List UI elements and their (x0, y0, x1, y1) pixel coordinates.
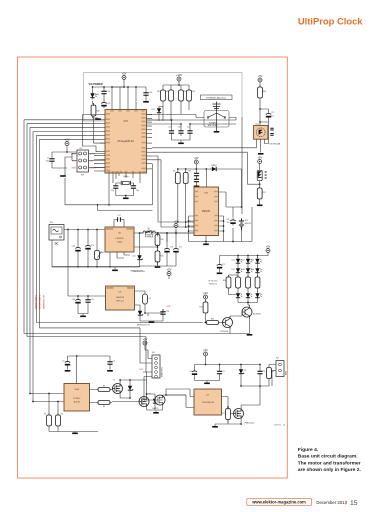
wires U12 NC left (189, 216, 195, 242)
node (165, 394, 167, 396)
+5V supply LED array (266, 244, 271, 252)
wire T4 emitter (249, 319, 251, 334)
node (135, 86, 137, 88)
wire LED bottoms (238, 303, 258, 306)
svg-text:HVT-3.3: HVT-3.3 (116, 301, 124, 303)
resistor R35 (255, 275, 260, 291)
node (188, 220, 190, 222)
caption (298, 447, 362, 473)
LED D11 top (236, 257, 242, 265)
svg-text:VIA POWER: VIA POWER (89, 83, 103, 86)
wire pullup rail (163, 85, 189, 88)
svg-text:C18: C18 (170, 247, 173, 249)
wires left pin stubs (94, 156, 100, 171)
encoder common wire down right edge (241, 117, 243, 214)
wire SCL (152, 160, 194, 227)
wire D9 node (247, 181, 259, 189)
bus wire 3 to U1 (30, 127, 100, 393)
wire +5 rail U7 (195, 361, 261, 369)
node (223, 230, 225, 232)
wire cap C10 tap (147, 120, 172, 128)
wire (139, 232, 144, 234)
resistor R3 (96, 388, 112, 392)
rotary encoder S1 body (204, 111, 229, 128)
wires U12 NC right (219, 216, 224, 242)
bus wire 4 to U1 (33, 132, 100, 402)
capacitor C9 (131, 183, 136, 191)
ground T4 (247, 334, 253, 336)
connector K6 (276, 361, 284, 377)
svg-text:D21: D21 (133, 256, 136, 258)
node (166, 232, 168, 234)
transistor T6 BS170 (155, 395, 165, 405)
regulator U6 LM2576HVT-3.3 (106, 286, 135, 310)
wire K4 to T6 gate (144, 377, 155, 401)
wire U7 inB (166, 395, 194, 408)
capacitor C25 (85, 297, 90, 305)
resistor R1 (47, 413, 52, 429)
wires R36 (229, 275, 239, 295)
node (77, 229, 79, 231)
wire T3 emitter join (230, 329, 250, 334)
svg-text:ACOA: ACOA (74, 401, 81, 404)
svg-text:130552 - 14: 130552 - 14 (274, 425, 286, 427)
wire D21 leads (139, 233, 141, 266)
svg-text:U1A: U1A (75, 388, 80, 391)
svg-text:TC4427: TC4427 (73, 398, 81, 400)
ground U5 out (155, 266, 161, 268)
LED D13 top (255, 257, 261, 265)
svg-text:R2: R2 (61, 414, 63, 416)
svg-text:+3V3: +3V3 (166, 306, 170, 308)
node (29, 393, 31, 395)
IC3 pin name marks left (106, 113, 110, 115)
svg-text:BT1: BT1 (245, 220, 248, 222)
regulator U5 LM2576T-ADJ (105, 227, 134, 252)
svg-text:C24: C24 (72, 299, 75, 301)
node (259, 183, 261, 185)
wires U1 outs (90, 390, 97, 403)
wires +5 caps gnd (140, 233, 177, 266)
wire SDA (152, 156, 194, 222)
diode D1 (128, 384, 133, 392)
svg-text:22p: 22p (111, 190, 114, 192)
wire U7 caps gnd (195, 377, 220, 383)
svg-text:C2: C2 (62, 361, 64, 363)
wire K1 power (52, 146, 77, 169)
node (144, 312, 146, 314)
node (188, 225, 190, 227)
resistor R28 (175, 171, 180, 187)
connector K5 DC input (49, 225, 64, 241)
node (178, 84, 180, 86)
wire aref gnd loop (65, 164, 153, 205)
figure frame (18, 57, 288, 478)
wire R5 top to K6 (269, 365, 276, 366)
wire cap C11 tap (147, 124, 182, 128)
svg-text:100n: 100n (46, 161, 50, 163)
ground U1 (72, 433, 78, 435)
node (223, 225, 225, 227)
ground main rail (112, 270, 118, 272)
svg-text:D11: D11 (232, 260, 235, 262)
svg-text:RESET: RESET (90, 168, 97, 170)
svg-text:C6: C6 (263, 371, 265, 373)
wires mosfets (112, 380, 147, 410)
svg-text:C19: C19 (179, 247, 182, 249)
switch S2 (145, 230, 152, 233)
svg-text:L3: L3 (149, 298, 151, 300)
node (247, 302, 249, 304)
+5V supply K1 (65, 137, 70, 145)
mosfet T1 (113, 384, 123, 394)
svg-text:C25: C25 (91, 299, 94, 301)
node (237, 255, 239, 257)
node (259, 121, 261, 123)
wire (114, 267, 116, 269)
svg-text:T-ADJ: T-ADJ (117, 241, 123, 244)
resistor R35 (203, 300, 208, 316)
IC3 left pin wires (100, 114, 105, 116)
svg-text:10k: 10k (188, 171, 191, 173)
bus wire 6 to K4 (40, 139, 153, 363)
svg-text:R19: R19 (157, 91, 160, 93)
svg-text:R30: R30 (160, 239, 163, 241)
svg-text:4u7: 4u7 (271, 116, 274, 118)
svg-text:ENCODER: ENCODER (208, 125, 218, 127)
capacitor C21 (266, 111, 271, 119)
node (188, 230, 190, 232)
wire U7 inA (166, 389, 194, 397)
node (259, 108, 261, 110)
LED D18 low (246, 292, 252, 300)
node (241, 206, 243, 208)
capacitor C12 (187, 128, 192, 136)
svg-text:C10: C10 (168, 126, 171, 128)
inductor L1 (143, 231, 155, 233)
node (92, 86, 94, 88)
svg-text:R32: R32 (211, 318, 214, 320)
node (240, 423, 242, 425)
display-board boundary box (84, 73, 243, 122)
svg-text:DS3231: DS3231 (202, 211, 211, 213)
svg-text:C17: C17 (222, 264, 225, 266)
node (66, 151, 68, 153)
svg-text:R36: R36 (223, 280, 226, 282)
LED D14 mid (236, 267, 242, 275)
resistor R19 (161, 88, 166, 104)
wire +5V rail to RTC (155, 232, 194, 234)
node (146, 393, 148, 395)
IC3 pin name marks right (142, 113, 146, 115)
node (96, 266, 98, 268)
svg-text:BS170: BS170 (153, 408, 160, 410)
wire S2 run to RTC (152, 231, 195, 242)
node (157, 232, 159, 234)
driver U7 TC4427ACOA (194, 389, 222, 415)
node (32, 401, 34, 403)
node (257, 255, 259, 257)
node (109, 266, 111, 268)
+5V supply rail (122, 71, 127, 79)
diode D8 BAT54 (210, 167, 218, 171)
node (247, 255, 249, 257)
wires U6 out node (140, 309, 163, 321)
capacitor C19 (173, 246, 178, 254)
capacitor C24 (75, 297, 80, 305)
capacitor C13 (143, 90, 148, 98)
svg-text:MBR0520LT1G: MBR0520LT1G (137, 325, 151, 327)
wire (259, 82, 261, 87)
bus wire 1 long gnd run (24, 120, 230, 334)
diode D2 (153, 397, 158, 405)
svg-text:BC847A: BC847A (253, 313, 261, 316)
node (129, 397, 131, 399)
svg-text:are shown only in Figure 2.: are shown only in Figure 2. (298, 467, 362, 473)
svg-text:C17: C17 (117, 215, 120, 217)
capacitor C3 (107, 359, 112, 367)
node (77, 295, 79, 297)
wire (248, 304, 250, 306)
svg-text:D3: D3 (244, 370, 246, 372)
node (259, 364, 261, 366)
wire cap C12 tap (190, 124, 236, 128)
node (177, 168, 179, 170)
node (232, 241, 234, 243)
svg-text:December 2013: December 2013 (316, 500, 347, 505)
node (103, 86, 105, 88)
node (139, 232, 141, 234)
capacitor C2 (65, 359, 70, 367)
svg-text:C12: C12 (187, 126, 190, 128)
node (223, 220, 225, 222)
svg-text:TSOP4138: TSOP4138 (269, 144, 281, 146)
svg-text:IRML6344: IRML6344 (245, 423, 255, 425)
ground via-power (95, 118, 101, 120)
resistor R27 (257, 186, 262, 202)
node (205, 322, 207, 324)
wire K5 out (52, 230, 105, 267)
ground C13 (143, 101, 149, 103)
+5V supply TSOP (258, 74, 263, 82)
wire (178, 81, 180, 85)
node (129, 379, 131, 381)
wire U6 caps gnd (78, 305, 88, 316)
node (57, 401, 59, 403)
IR receiver IC2 TSOP4138 (254, 125, 268, 139)
wires U6 input caps (78, 296, 88, 297)
wire IC3 to D9 node (152, 152, 247, 184)
svg-text:Figure 4.: Figure 4. (298, 447, 319, 453)
wires pullups to I2C (178, 185, 186, 228)
node (205, 168, 207, 170)
wire TSOP supply (260, 101, 269, 125)
svg-text:R31: R31 (160, 256, 163, 258)
svg-text:R22: R22 (184, 91, 187, 93)
svg-text:15: 15 (350, 500, 358, 507)
ground U6 caps (80, 316, 86, 318)
svg-text:CLK: CLK (90, 161, 95, 163)
resistor R33 (236, 275, 241, 291)
resistor R21 (169, 88, 174, 104)
wires T6 (156, 395, 166, 412)
svg-text:The motor and transformer: The motor and transformer (298, 460, 361, 466)
wires cap grounds (172, 136, 191, 143)
wire encoder B to IC3 (147, 118, 237, 121)
mosfet T7 IRML6344 (234, 409, 244, 419)
resistor R23 (187, 88, 192, 104)
svg-text:MAIN PWM OUT: MAIN PWM OUT (43, 294, 46, 309)
node (157, 246, 159, 248)
ground C2 (65, 370, 71, 372)
wires U1 supply caps (68, 356, 111, 370)
svg-text:D16: D16 (251, 269, 254, 271)
wire U1 vcc (76, 356, 78, 384)
svg-text:R40: R40 (101, 252, 104, 254)
ground C3 (107, 370, 113, 372)
svg-text:+10V: +10V (139, 369, 144, 371)
footer (247, 498, 358, 507)
wire RTC +5 rail (178, 164, 211, 187)
wires U6 output (135, 291, 146, 313)
ground R27 (257, 205, 263, 207)
LED D12 top (246, 257, 252, 265)
mosfet T2 (139, 397, 149, 407)
capacitor C14 (101, 89, 106, 97)
ground caps (178, 143, 184, 145)
svg-text:BAT54: BAT54 (211, 164, 216, 167)
node (205, 364, 207, 366)
wire T3 coll to T4 base (230, 312, 242, 316)
resistor R34 (246, 275, 251, 291)
LED D19 low (255, 292, 261, 300)
capacitor C16 (85, 243, 90, 251)
+5V supply driver (203, 348, 208, 356)
capacitor C15 (101, 100, 106, 108)
svg-text:C26: C26 (166, 311, 169, 313)
wires K1 signals (63, 154, 105, 177)
svg-text:D12: D12 (231, 269, 234, 271)
wire T6 to U7 (166, 394, 186, 396)
ground U12 (203, 244, 209, 246)
+5V supply R35 (203, 291, 208, 299)
svg-text:EVQWK4001 (Alps: Best): EVQWK4001 (Alps: Best) (206, 96, 226, 99)
wire D8 to battery (218, 169, 242, 207)
wire crystal gnd rail (116, 191, 134, 198)
ground TSOP (258, 153, 264, 155)
svg-text:MAIN POWER 1: MAIN POWER 1 (35, 295, 38, 309)
wire R2 feed (57, 402, 59, 417)
resistor R29 (183, 171, 188, 187)
svg-text:R1: R1 (44, 414, 46, 416)
node (189, 123, 191, 125)
svg-text:D15: D15 (251, 260, 254, 262)
wire encoder A to IC3 (147, 115, 205, 118)
svg-text:R23: R23 (192, 91, 195, 93)
resistor R4 (96, 401, 112, 405)
svg-text:C3: C3 (113, 361, 115, 363)
wire bottom gnd rail (49, 429, 98, 433)
wires T7 (215, 386, 260, 426)
svg-text:LM2576: LM2576 (116, 297, 125, 299)
node (87, 229, 89, 231)
svg-text:www.elektor-magazine.com: www.elektor-magazine.com (251, 500, 306, 505)
svg-text:10k: 10k (173, 171, 176, 173)
capacitor C1 (49, 156, 54, 164)
svg-text:DC: DC (55, 242, 59, 246)
wire K6 pin2 (272, 371, 276, 387)
svg-text:SCK: SCK (72, 161, 77, 163)
resistor R36 (226, 275, 231, 291)
svg-text:IR TX LED /: IR TX LED / (209, 281, 219, 283)
svg-text:C20: C20 (226, 219, 229, 221)
zener D3 (239, 368, 244, 376)
wires TSOP pins (257, 122, 269, 153)
+5V net marker 2 (167, 267, 172, 275)
svg-text:C4: C4 (189, 371, 191, 373)
resistor R5 (267, 366, 272, 382)
svg-text:C5: C5 (222, 371, 224, 373)
node (195, 168, 197, 170)
svg-text:|: | (345, 500, 346, 506)
node (180, 123, 182, 125)
wire (221, 322, 223, 324)
ground crystal (123, 198, 129, 200)
node (157, 232, 159, 234)
wires IC3 bottom pins (113, 173, 140, 183)
node (48, 393, 50, 395)
wires input caps and U6 feed (68, 230, 106, 297)
wires D1 (129, 380, 131, 398)
ground C17 (217, 273, 223, 275)
svg-text:R3: R3 (103, 385, 105, 387)
U12 pin marks (195, 191, 198, 192)
svg-text:L1: L1 (148, 230, 150, 232)
microcontroller IC3 ATmega328-AU (105, 110, 147, 174)
wire (205, 356, 207, 361)
node (125, 195, 127, 197)
C21b caps right of TSOP (270, 128, 273, 135)
connector K1 ISP (77, 150, 89, 172)
capacitor C18 (164, 246, 169, 254)
resistor R24 (91, 103, 96, 119)
wire (205, 299, 207, 303)
wire TSOP data long run (152, 147, 257, 149)
node (175, 232, 177, 234)
LED D24 (90, 92, 96, 100)
wire (259, 202, 261, 205)
svg-text:MAIN RPG: MAIN RPG (161, 367, 164, 377)
transistor T3 BC847A (223, 318, 233, 328)
resistor R30 (155, 233, 160, 249)
node (171, 119, 173, 121)
svg-text:UltiProp Clock: UltiProp Clock (298, 15, 363, 26)
svg-text:T1: T1 (113, 380, 115, 382)
svg-text:C11: C11 (178, 126, 181, 128)
svg-text:MISO: MISO (71, 154, 77, 156)
node (77, 266, 79, 268)
wire U5 out (134, 232, 143, 234)
svg-text:130552-12: 130552-12 (209, 284, 218, 286)
wire (259, 164, 261, 171)
svg-text:R27: R27 (263, 192, 266, 194)
+5V supply D9 (257, 155, 262, 163)
svg-text:ATmega328-AU: ATmega328-AU (117, 140, 134, 143)
diode D25 (138, 309, 143, 317)
wire (168, 276, 170, 280)
+5V net marker (174, 219, 179, 227)
bus wire 5 pwm (37, 135, 204, 322)
